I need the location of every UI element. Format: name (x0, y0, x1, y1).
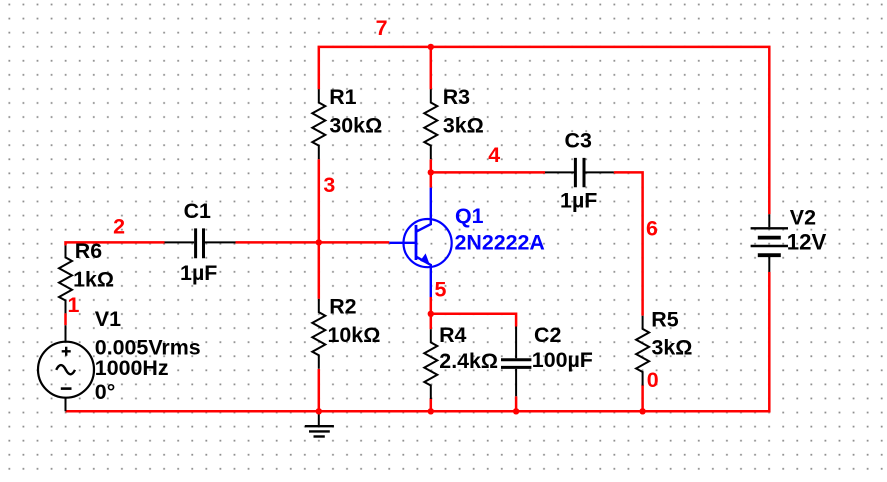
svg-text:1kΩ: 1kΩ (73, 268, 114, 292)
svg-text:C2: C2 (534, 323, 561, 347)
svg-text:1: 1 (68, 293, 80, 317)
svg-text:2: 2 (113, 215, 125, 239)
svg-text:1µF: 1µF (560, 189, 597, 213)
svg-text:6: 6 (646, 216, 658, 240)
svg-text:3kΩ: 3kΩ (443, 113, 484, 137)
svg-text:R1: R1 (329, 85, 356, 109)
svg-text:3: 3 (323, 173, 335, 197)
svg-text:0: 0 (647, 368, 659, 392)
svg-text:V1: V1 (95, 307, 121, 331)
svg-text:5: 5 (435, 277, 447, 301)
svg-text:C1: C1 (184, 199, 211, 223)
svg-text:30kΩ: 30kΩ (329, 113, 382, 137)
svg-text:R2: R2 (329, 294, 356, 318)
svg-text:R6: R6 (75, 239, 102, 263)
svg-text:C3: C3 (565, 128, 592, 152)
svg-text:3kΩ: 3kΩ (652, 336, 693, 360)
svg-text:R3: R3 (443, 85, 470, 109)
svg-text:4: 4 (488, 143, 500, 167)
svg-text:10kΩ: 10kΩ (328, 323, 381, 347)
svg-text:1µF: 1µF (180, 261, 217, 285)
svg-text:12V: 12V (787, 229, 827, 254)
svg-text:V2: V2 (790, 206, 816, 230)
svg-text:2N2222A: 2N2222A (455, 230, 545, 254)
svg-text:R4: R4 (439, 323, 466, 347)
svg-text:R5: R5 (651, 308, 678, 332)
svg-text:1000Hz: 1000Hz (95, 356, 169, 380)
svg-text:2.4kΩ: 2.4kΩ (439, 349, 498, 373)
svg-text:0°: 0° (95, 380, 115, 404)
svg-text:7: 7 (376, 16, 388, 40)
svg-text:Q1: Q1 (455, 204, 484, 228)
svg-text:100µF: 100µF (532, 348, 593, 372)
